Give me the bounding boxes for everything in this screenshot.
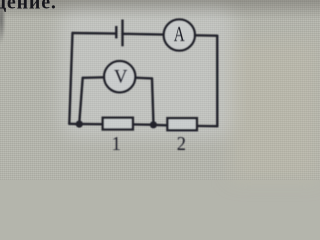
wire voltmeter branch right (down to node B) [152, 78, 153, 121]
ammeter U1 [164, 19, 195, 50]
wire node B to resistor 1 [134, 123, 150, 126]
node B junction dot [150, 121, 157, 128]
wire bottom left corner [69, 123, 76, 126]
paper texture background [0, 0, 320, 180]
svg-text:дение.: дение. [0, 0, 57, 14]
svg-text:2: 2 [177, 133, 186, 155]
left edge shadow streak [0, 4, 7, 54]
resistor 2 [167, 118, 197, 130]
wire ammeter to top-right corner [195, 34, 217, 37]
wire voltmeter to right corner [135, 76, 152, 79]
node A junction dot [76, 121, 83, 128]
wire bottom right (corner to resistor 2) [198, 125, 217, 128]
battery G1 [116, 20, 122, 47]
wire resistor 2 to node B [157, 124, 167, 127]
svg-text:V: V [114, 68, 128, 88]
svg-text:A: A [174, 23, 186, 46]
wire voltmeter branch left (up from node A) [79, 78, 82, 122]
resistor 1 [103, 118, 133, 130]
wire left side (up) [69, 33, 72, 124]
wire top left (corner to battery) [73, 32, 117, 35]
wire resistor 1 to node A [83, 123, 102, 126]
lighter figure area [60, 8, 235, 138]
top shadow band [0, 0, 320, 19]
warm paper tint right [230, 40, 320, 180]
voltmeter U2 [104, 61, 135, 92]
wire right side (down) [216, 36, 219, 127]
wire voltmeter branch top-left [83, 76, 104, 79]
svg-text:1: 1 [112, 133, 121, 155]
wire battery to ammeter [123, 33, 164, 36]
